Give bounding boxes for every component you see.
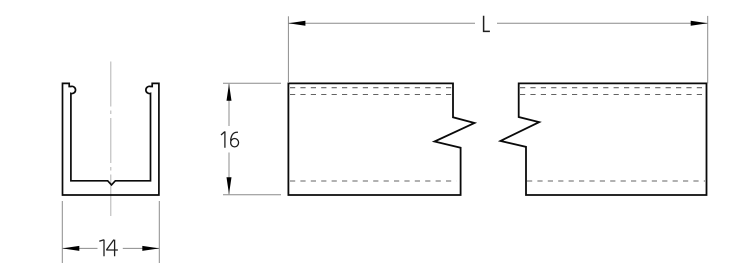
dimension 16 arrow bottom	[227, 177, 232, 194]
side view right body hidden line top1	[520, 87, 705, 89]
side view left body hidden line bottom	[290, 180, 457, 182]
channel cross-section profile	[63, 83, 159, 195]
side view right body hidden line bottom	[527, 180, 705, 182]
dimension L extension line right	[707, 16, 709, 84]
dimension L label	[484, 16, 490, 32]
dimension L line right segment	[497, 22, 708, 24]
side view left body outline	[288, 83, 474, 195]
dimension 16 arrow top	[227, 84, 232, 101]
dimension 16 extension line bottom	[223, 194, 281, 196]
dimension 16 label	[221, 131, 239, 147]
dimension 14 label	[99, 240, 118, 257]
side view left body hidden line top2	[290, 94, 452, 96]
dimension L line left segment	[288, 22, 475, 24]
dimension 16 extension line top	[223, 82, 281, 84]
side view left body hidden line top1	[290, 87, 452, 89]
centerline	[110, 62, 112, 217]
dimension 16 line top segment	[228, 84, 230, 126]
dimension 14 arrow right	[142, 246, 159, 251]
dimension L extension line left	[287, 16, 289, 83]
dimension 14 arrow left	[62, 246, 79, 251]
dimension 14 extension line left	[61, 201, 63, 263]
dimension 16 line bottom segment	[228, 153, 230, 195]
dimension L arrow left	[288, 21, 305, 26]
dimension L arrow right	[691, 21, 708, 26]
dimension 14 extension line right	[158, 201, 160, 263]
side view right body hidden line top2	[520, 94, 705, 96]
dimension 14 line right segment	[123, 247, 160, 249]
dimension 14 line left segment	[62, 247, 97, 249]
side view right body outline	[501, 83, 707, 195]
